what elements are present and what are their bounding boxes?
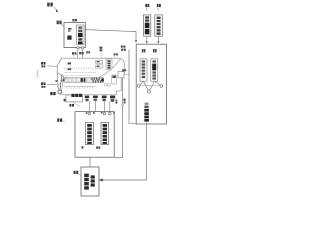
label inside power unit right xyxy=(153,49,157,52)
pedal input arrow xyxy=(55,80,58,82)
valve row below cylinder: blob B xyxy=(85,96,89,102)
pipe 2 down xyxy=(95,101,97,111)
port circle b xyxy=(81,47,83,49)
pipe 3 down xyxy=(104,101,106,112)
cylinder lower line xyxy=(64,86,96,88)
piston rod band xyxy=(64,78,103,82)
label 60 xyxy=(64,99,69,102)
reservoir left small text xyxy=(68,28,71,32)
bore lines xyxy=(64,71,96,73)
labels above master cylinder xyxy=(72,47,118,56)
label 42 xyxy=(41,62,46,67)
circle on sensor line xyxy=(121,104,123,106)
pushrod diagonal xyxy=(57,73,66,80)
pipe 1 down xyxy=(89,101,91,112)
pump 92 vertical text xyxy=(145,16,150,34)
junction lines below accumulators xyxy=(140,81,144,85)
label 64 inside valve unit xyxy=(96,146,100,148)
label 90 xyxy=(72,19,77,21)
master cylinder body outline xyxy=(57,58,124,95)
pedal pad xyxy=(58,90,62,93)
label inside power unit left xyxy=(142,49,146,52)
wire motor 94 down arrow xyxy=(157,36,159,42)
label 16 xyxy=(86,51,90,53)
label 76 xyxy=(116,100,118,104)
brake ECU vertical text col2 xyxy=(91,175,95,186)
label 94 xyxy=(157,4,161,11)
vertical label box in cylinder xyxy=(106,59,112,69)
piston seal 3 xyxy=(101,78,103,81)
wire port b to master cylinder xyxy=(81,49,83,58)
reservoir box 18 (top-left outer box) xyxy=(64,23,85,48)
accumulator 2 vertical text xyxy=(152,60,156,79)
wire supply line (x129 vertical) xyxy=(129,50,136,124)
label 74 xyxy=(123,99,125,104)
valve row: blob C xyxy=(93,96,98,101)
label 44 xyxy=(41,82,46,87)
reservoir inner vertical text xyxy=(78,26,83,44)
wire ECU to power unit xyxy=(101,124,146,180)
small mark left inside valve unit xyxy=(82,146,84,148)
internal right structure xyxy=(112,75,117,84)
reservoir left dark mark xyxy=(67,36,71,40)
simulator dark marks xyxy=(71,94,82,97)
wire reservoir to power unit (top horizontal) xyxy=(85,30,136,43)
port circle a xyxy=(77,47,79,49)
label 82 xyxy=(121,49,126,51)
linear valve box 2 xyxy=(101,123,109,145)
regulator small box 1 xyxy=(96,60,103,63)
wire sensor down (L1) xyxy=(114,78,122,158)
accumulator inner box 2 xyxy=(151,59,158,81)
accumulator 1 vertical text xyxy=(142,60,146,78)
brace xyxy=(37,70,39,77)
regulator small box 2 xyxy=(96,65,103,68)
valve row: blob E xyxy=(110,96,115,102)
wire sensor to supply line xyxy=(124,74,129,76)
pressure sensor box on right of cylinder xyxy=(118,72,124,78)
brake ECU box xyxy=(81,167,99,196)
wire port a to master cylinder xyxy=(77,49,79,58)
label 70 xyxy=(74,171,81,176)
leader ticks to cylinder top xyxy=(74,52,115,59)
junction circle right xyxy=(160,85,163,88)
reservoir inner vertical label box xyxy=(77,25,85,45)
wire valve unit to ECU xyxy=(89,157,91,167)
stroke simulator box xyxy=(66,95,83,102)
pipe circle 3 xyxy=(109,112,112,115)
sensor label xyxy=(122,69,126,71)
valve row: blob D xyxy=(102,96,107,102)
linear valve 1 vertical text xyxy=(87,124,92,144)
label 92 xyxy=(145,4,149,11)
housing curve xyxy=(97,59,121,79)
pipe 4 down xyxy=(109,102,111,112)
label 10 (overall system) xyxy=(47,3,58,13)
label 68 xyxy=(69,104,74,107)
motor 94 vertical text xyxy=(157,17,161,35)
valve unit box (middle bottom) xyxy=(75,112,114,158)
return spring xyxy=(91,78,102,83)
linear valve box 1 xyxy=(86,123,94,145)
motor box 94 (top right 2) xyxy=(155,15,163,36)
wire pump 92 down arrow xyxy=(146,36,148,42)
accumulator inner box 1 xyxy=(140,59,147,81)
label 62 xyxy=(57,118,65,121)
wire to front wheel line xyxy=(47,65,60,68)
small marks near circles xyxy=(86,112,115,114)
internal valve circles xyxy=(104,83,107,86)
label 80 xyxy=(121,46,126,48)
linear valve 2 vertical text xyxy=(103,124,107,144)
wire to rear wheel line xyxy=(47,83,60,85)
label 50 xyxy=(50,92,55,95)
piston seal 1 xyxy=(81,78,83,82)
cylinder hatch row upper xyxy=(64,67,101,69)
power supply unit box (right big box) xyxy=(136,44,166,124)
brake pedal lever xyxy=(60,74,62,91)
cylinder internal labels left xyxy=(68,62,71,70)
pipe circle 1 xyxy=(88,112,91,115)
piston seal 2 xyxy=(84,78,86,82)
pipe circle 2 xyxy=(103,112,106,115)
power unit bottom vertical text xyxy=(144,103,149,124)
junction circle left xyxy=(138,85,141,88)
leader curve 60 xyxy=(68,102,79,106)
junction circle center xyxy=(148,90,151,93)
label 18 xyxy=(57,21,64,27)
cylinder hatch row lower xyxy=(66,87,93,89)
brake ECU vertical text col1 xyxy=(84,174,89,190)
pump box 92 (top right 1) xyxy=(143,15,150,36)
